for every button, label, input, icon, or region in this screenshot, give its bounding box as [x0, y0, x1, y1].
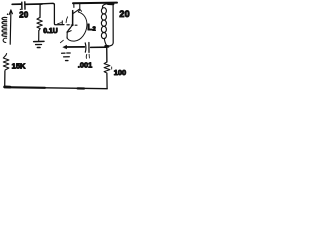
emitter node arrow blob: [63, 45, 67, 49]
junction blob on bottom wire: [78, 87, 84, 89]
arrow of variable inductor L1: [9, 10, 12, 44]
svg-text:100: 100: [114, 68, 126, 77]
junction blob at L2 top: [108, 2, 113, 5]
base lead dashes: [67, 24, 77, 26]
wire capacitor to node A: [91, 46, 107, 48]
transistor Q1: [60, 3, 87, 43]
stray mark: [58, 23, 62, 24]
svg-text:20: 20: [119, 9, 129, 19]
lead R2 to bottom wire: [4, 72, 6, 88]
wire emitter node to capacitor: [66, 46, 85, 48]
coil L2: [101, 4, 107, 46]
svg-text:.001: .001: [78, 61, 92, 70]
junction tick at left end of top-right wire: [73, 4, 75, 7]
bottom wire: [4, 87, 107, 89]
wire top-right (collector to L2): [73, 2, 117, 5]
svg-text:0.1U: 0.1U: [43, 28, 58, 35]
junction tick: [61, 21, 63, 24]
resistor R2 15K: [3, 54, 9, 72]
wire top-left: [12, 3, 21, 5]
node junction at R1 top: [39, 5, 41, 18]
ground at emitter: [62, 53, 71, 61]
wire cap to junction: [25, 3, 42, 5]
core line beside L2: [109, 5, 114, 46]
lead R3 to bottom wire: [106, 74, 108, 88]
svg-text:20: 20: [19, 11, 29, 20]
capacitor .001: [85, 43, 89, 59]
svg-text:15K: 15K: [12, 62, 26, 71]
ground under R1: [34, 31, 44, 48]
node A junction blob: [106, 45, 109, 48]
svg-text:L2: L2: [87, 22, 95, 32]
resistor R3 100: [104, 62, 110, 74]
capacitor 20 (left): [22, 2, 25, 9]
wire junction to corner: [42, 3, 54, 5]
stray dot above label 20: [20, 9, 21, 10]
wire down to base: [54, 5, 64, 25]
node A lead down: [106, 45, 108, 62]
coil L1 (antenna coil, left): [2, 13, 8, 42]
resistor R1: [37, 17, 42, 30]
